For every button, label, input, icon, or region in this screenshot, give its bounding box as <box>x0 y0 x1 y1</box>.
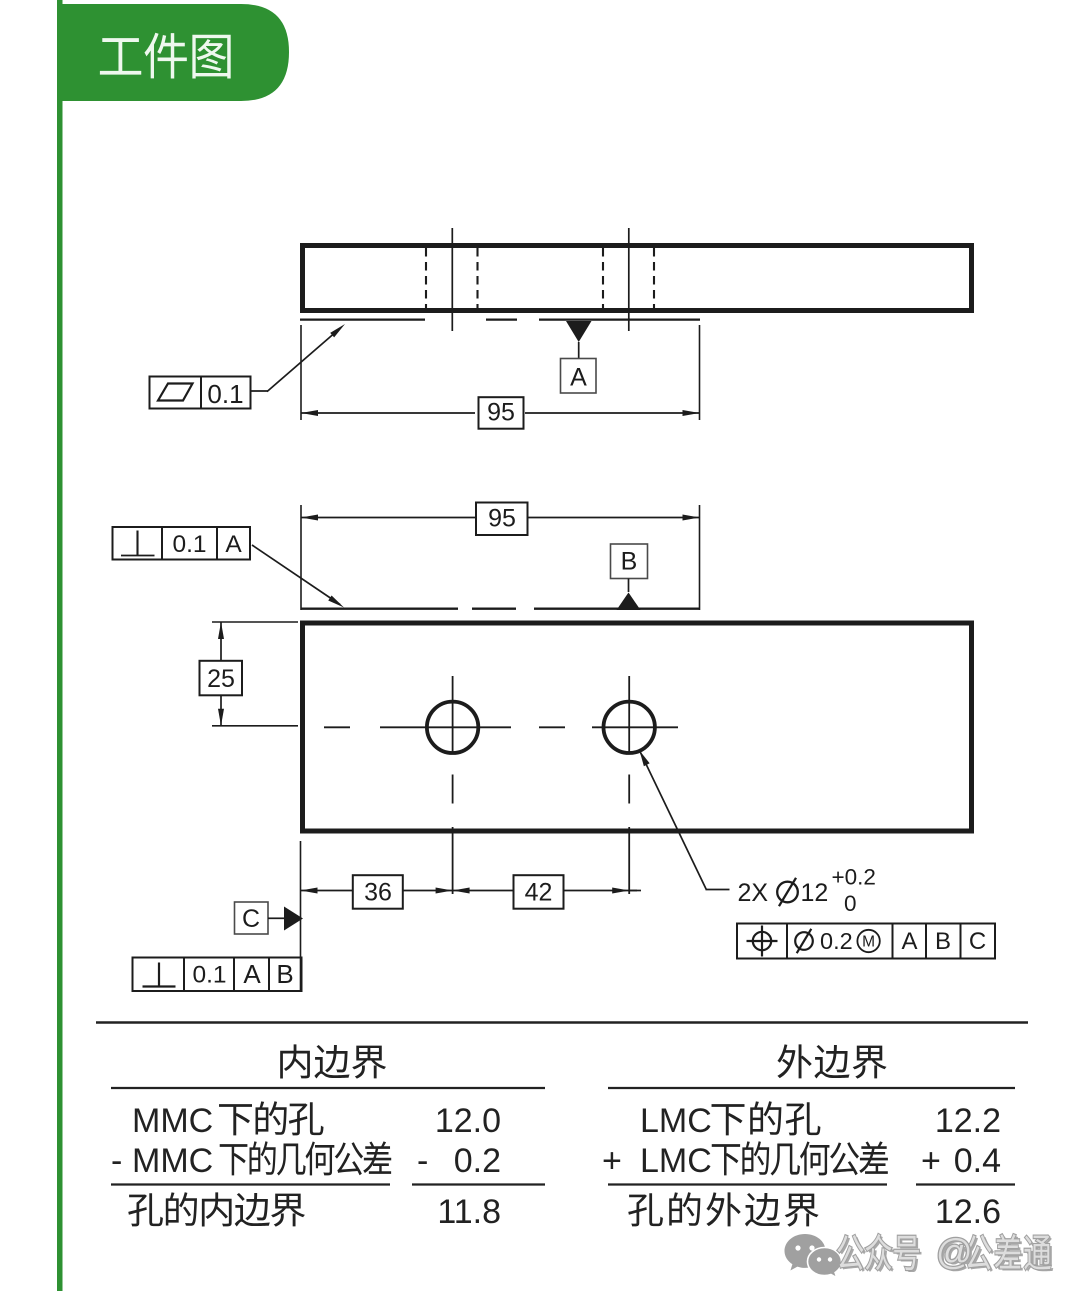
svg-text:+0.2: +0.2 <box>832 865 876 890</box>
svg-text:95: 95 <box>487 399 515 427</box>
svg-text:2X: 2X <box>738 879 769 907</box>
svg-text:M: M <box>862 934 875 951</box>
svg-text:0: 0 <box>844 891 857 916</box>
svg-text:B: B <box>276 959 293 989</box>
svg-text:B: B <box>621 548 638 576</box>
svg-text:0.1: 0.1 <box>172 531 206 558</box>
svg-text:A: A <box>243 959 261 989</box>
svg-text:11.8: 11.8 <box>437 1193 501 1231</box>
svg-text:C: C <box>969 928 986 955</box>
svg-text:LMC: LMC <box>640 1102 712 1140</box>
svg-text:0.1: 0.1 <box>207 379 243 409</box>
svg-text:0.2: 0.2 <box>820 928 853 954</box>
svg-text:12.6: 12.6 <box>935 1193 1001 1231</box>
svg-text:42: 42 <box>525 879 553 907</box>
svg-text:+: + <box>921 1142 941 1180</box>
svg-text:+: + <box>602 1142 622 1180</box>
svg-text:0.1: 0.1 <box>192 962 226 989</box>
svg-text:25: 25 <box>207 665 235 693</box>
svg-text:-: - <box>111 1142 122 1180</box>
svg-text:0.4: 0.4 <box>954 1142 1001 1180</box>
svg-text:-: - <box>417 1142 428 1180</box>
svg-text:A: A <box>901 928 917 955</box>
svg-text:12: 12 <box>801 879 829 907</box>
svg-text:A: A <box>225 531 242 558</box>
svg-text:36: 36 <box>364 879 392 907</box>
svg-text:12.2: 12.2 <box>935 1102 1001 1140</box>
svg-text:MMC: MMC <box>132 1142 213 1180</box>
svg-text:@: @ <box>936 1231 973 1272</box>
svg-text:MMC: MMC <box>132 1102 213 1140</box>
svg-text:12.0: 12.0 <box>435 1102 501 1140</box>
svg-text:A: A <box>570 364 587 392</box>
svg-text:C: C <box>242 905 260 933</box>
svg-text:95: 95 <box>488 505 516 533</box>
svg-text:B: B <box>935 928 951 955</box>
svg-text:0.2: 0.2 <box>454 1142 501 1180</box>
svg-text:LMC: LMC <box>640 1142 712 1180</box>
